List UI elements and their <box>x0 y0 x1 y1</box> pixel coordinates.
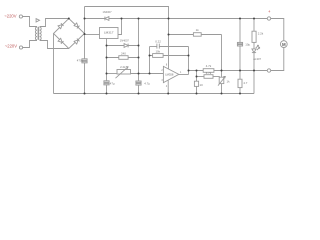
wire plus terminal to motor <box>271 19 284 41</box>
resistor R3 shunt <box>194 81 198 86</box>
svg-text:M: M <box>282 42 286 47</box>
capacitor C4 0.22 <box>156 44 158 49</box>
wire R7 drop <box>239 71 241 94</box>
svg-text:4.7k: 4.7k <box>206 64 212 68</box>
wire sense vertical <box>196 71 198 82</box>
svg-text:10µ: 10µ <box>245 43 250 47</box>
wire AC2 to transformer <box>23 41 37 48</box>
capacitor C1 470u <box>82 59 87 63</box>
wire R5 line <box>169 34 222 36</box>
bridge diode D4 <box>74 23 79 28</box>
wire bottom bus <box>54 93 255 95</box>
svg-text:47µ: 47µ <box>110 82 115 86</box>
wire R5 drop / pot2 vertical <box>221 35 223 78</box>
wire feedback riser <box>149 47 151 74</box>
svg-text:1N4007: 1N4007 <box>102 10 112 14</box>
svg-text:1k: 1k <box>227 79 231 83</box>
wire op-amp pin4 ground <box>167 80 169 93</box>
svg-text:4.7: 4.7 <box>243 81 247 85</box>
resistor R8 <box>252 31 256 42</box>
svg-text:0.22: 0.22 <box>155 39 161 43</box>
svg-text:AL307: AL307 <box>253 57 261 61</box>
svg-text:+: + <box>268 9 271 14</box>
wire LM317 input <box>85 34 100 36</box>
wire op-amp output <box>179 74 189 76</box>
wire feedback cap line <box>150 46 157 48</box>
svg-text:240: 240 <box>121 51 126 55</box>
wire R8 to LED <box>253 42 255 49</box>
node terminal minus <box>267 69 270 72</box>
wire top unregulated rail <box>85 7 169 69</box>
LED HL1 <box>252 45 260 52</box>
svg-text:4.7µ: 4.7µ <box>144 82 150 86</box>
wire input node vertical <box>84 7 86 59</box>
op-amp U2 LM358 <box>163 66 178 82</box>
svg-text:1: 1 <box>180 72 182 74</box>
svg-text:2.2k: 2.2k <box>258 31 264 35</box>
wire AC1 to transformer <box>23 17 38 27</box>
capacitor C2 47u <box>104 81 109 85</box>
wire main vertical output node <box>138 19 140 82</box>
resistor R7 4.7 <box>238 79 242 87</box>
svg-text:~220V: ~220V <box>5 44 17 49</box>
capacitor C5 10u <box>237 42 242 46</box>
bridge diode D3 <box>58 23 63 28</box>
svg-text:10: 10 <box>200 83 204 87</box>
wire ADJ vertical <box>106 39 108 81</box>
wire terminal line minus <box>189 70 268 72</box>
resistor R4 4.7k <box>203 69 214 73</box>
wire R1 branch <box>107 57 139 59</box>
wire LM317 output riser <box>118 19 122 35</box>
wire LED to terminal line and bus riser <box>253 53 255 94</box>
diode D1 1N4007 <box>105 17 109 21</box>
svg-text:8: 8 <box>166 65 168 67</box>
node terminal plus <box>267 17 270 20</box>
bridge diode D5 <box>74 39 79 44</box>
wire bridge minus drop <box>53 34 55 94</box>
node terminal AC2 <box>19 46 22 49</box>
svg-text:2.2k: 2.2k <box>120 65 126 69</box>
svg-text:10k: 10k <box>155 50 160 54</box>
diode D2 1N4007 <box>124 44 128 48</box>
svg-text:LM358: LM358 <box>165 72 174 76</box>
svg-text:4.7k: 4.7k <box>206 71 212 75</box>
wire secondary top to bridge <box>40 19 69 27</box>
resistor R6 4.7k <box>204 75 213 79</box>
svg-text:470µ: 470µ <box>77 59 84 63</box>
resistor R5 1k <box>193 33 201 37</box>
svg-text:1k: 1k <box>196 28 200 32</box>
wire pot to op-amp input line <box>131 73 164 75</box>
svg-text:LM317: LM317 <box>104 31 114 35</box>
capacitor C3 47u <box>136 81 141 85</box>
potentiometer RP2 1k <box>218 77 225 86</box>
wire output riser to feedback <box>188 47 190 75</box>
wire LED branch <box>253 19 255 32</box>
svg-text:4: 4 <box>166 86 168 88</box>
fuse marker triangle <box>36 19 39 22</box>
wire secondary bottom to bridge <box>40 41 69 49</box>
junction dots <box>68 18 255 95</box>
wire C5 10u branch <box>239 19 241 43</box>
wire motor to minus terminal <box>271 48 284 71</box>
regulator U1 LM317 box <box>100 28 119 39</box>
wire D2 branch <box>107 45 139 47</box>
wire feedback resistor line <box>150 55 189 57</box>
wire main output rail <box>85 18 268 20</box>
bridge diode D6 <box>58 38 63 43</box>
potentiometer RP1 2.2k <box>107 67 131 79</box>
svg-text:~220V: ~220V <box>4 14 16 19</box>
resistor R1 240 <box>119 56 128 60</box>
wire R6 line <box>197 76 205 78</box>
transformer T1 <box>35 27 41 40</box>
node terminal AC1 <box>19 15 22 18</box>
svg-text:1N4007: 1N4007 <box>120 38 130 42</box>
resistor R2 10k <box>153 54 164 58</box>
wire R6 to pot2 <box>213 76 220 78</box>
motor M1 <box>280 41 287 48</box>
bridge rectifier diamond <box>54 19 85 49</box>
